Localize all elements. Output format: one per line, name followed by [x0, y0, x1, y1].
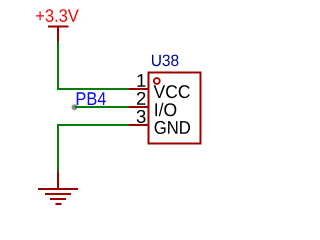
pin number 1: [137, 74, 145, 87]
pin 2 stub: [129, 106, 148, 108]
pin number 3: [137, 110, 146, 123]
pin name VCC: [154, 85, 190, 98]
power symbol +3.3V stem: [57, 27, 59, 43]
pin number 2: [137, 92, 146, 105]
wire PB4 to pin 2: [75, 106, 131, 108]
ground bar 2: [45, 193, 71, 195]
designator U38: [152, 55, 178, 67]
component U38 body: [149, 73, 201, 144]
wire from pin 3 to ground: [58, 125, 130, 172]
pin 1 stub: [129, 88, 148, 90]
net label PB4: [77, 92, 106, 105]
ground bar 4: [56, 203, 62, 205]
ground bar 3: [50, 198, 66, 200]
ground bar 1: [38, 188, 78, 190]
power symbol +3.3V bar: [48, 26, 69, 28]
ground stem: [57, 172, 59, 190]
pin name GND: [155, 121, 190, 134]
pin 1 indicator circle: [154, 78, 160, 84]
pin name I/O: [155, 103, 176, 117]
wire from +3.3V to pin 1: [58, 42, 130, 90]
pin 3 stub: [129, 124, 148, 126]
power net +3.3V label: [36, 9, 79, 22]
node dot (no-connect endpoint) on PB4 wire: [72, 104, 78, 110]
